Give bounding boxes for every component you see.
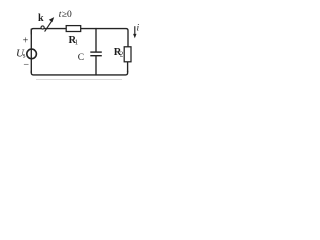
wire capacitor bottom lead	[95, 56, 97, 75]
switch k pivot circle	[41, 26, 44, 29]
wire top-left corner and top wire to switch	[31, 29, 41, 34]
svg-text:≥0: ≥0	[62, 10, 72, 20]
svg-text:−: −	[23, 59, 29, 70]
voltage source U_s circle	[27, 49, 37, 59]
current i arrow	[134, 26, 136, 35]
capacitor C top plate	[90, 51, 102, 53]
switch k blade arrow	[45, 21, 52, 32]
svg-text:k: k	[38, 13, 44, 24]
wire R1 to top-right corner down to R2	[81, 29, 129, 47]
resistor R2 box	[124, 47, 131, 62]
svg-text:1: 1	[75, 38, 79, 46]
svg-text:s: s	[23, 52, 26, 60]
svg-text:i: i	[137, 24, 140, 34]
svg-text:C: C	[78, 53, 84, 63]
wire left side through source	[30, 29, 32, 73]
wire switch to R1	[44, 28, 67, 30]
wire capacitor top lead	[95, 29, 97, 52]
svg-text:+: +	[23, 36, 29, 47]
capacitor C bottom plate	[90, 55, 102, 57]
wire R2 bottom lead	[127, 62, 129, 72]
resistor R1 box	[66, 26, 81, 32]
wire bottom	[31, 71, 127, 75]
scan artifact faint line	[36, 79, 122, 81]
svg-text:2: 2	[120, 51, 124, 59]
